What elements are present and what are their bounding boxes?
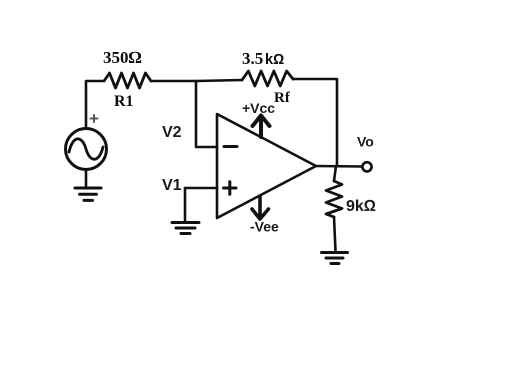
svg-text:350Ω: 350Ω [103, 48, 142, 67]
svg-text:Rf: Rf [274, 90, 291, 106]
wire V1 down to ground [184, 188, 187, 221]
svg-text:-Vee: -Vee [250, 219, 279, 235]
wire Rf to feedback corner [293, 79, 337, 166]
svg-text:Vo: Vo [357, 134, 374, 150]
wire 9k to ground [334, 217, 336, 251]
wire R1 to junction node [151, 80, 196, 83]
+Vcc supply arrow [259, 116, 263, 137]
wire source bottom to ground [85, 170, 88, 188]
ground below source [75, 188, 101, 200]
minus input symbol [224, 145, 237, 148]
resistor R1 [104, 73, 151, 88]
ground below 9k [322, 253, 348, 264]
resistor Rf [242, 71, 293, 86]
svg-text:kΩ: kΩ [265, 52, 284, 68]
output terminal circle [362, 162, 371, 171]
sine wave inside source [69, 139, 103, 159]
wire junction down to inverting input [196, 81, 217, 147]
ground below V1 [172, 223, 199, 234]
wire V1 to non-inverting input [185, 187, 217, 190]
-Vee supply arrow [258, 196, 262, 218]
plus polarity mark [91, 115, 98, 122]
svg-text:3.5: 3.5 [242, 49, 263, 68]
svg-text:R1: R1 [114, 93, 134, 110]
svg-text:V1: V1 [162, 177, 182, 194]
svg-text:+Vcc: +Vcc [242, 100, 275, 116]
svg-text:V2: V2 [162, 124, 182, 141]
op-amp U1 [217, 114, 316, 218]
svg-text:9kΩ: 9kΩ [346, 198, 376, 215]
wire output [316, 165, 362, 168]
resistor 9k [326, 181, 342, 217]
wire source top to R1 [86, 81, 104, 129]
wire node down to 9k resistor [334, 166, 336, 181]
voltage source V [66, 129, 107, 170]
wire junction to Rf [196, 80, 242, 81]
plus input symbol [224, 182, 237, 195]
